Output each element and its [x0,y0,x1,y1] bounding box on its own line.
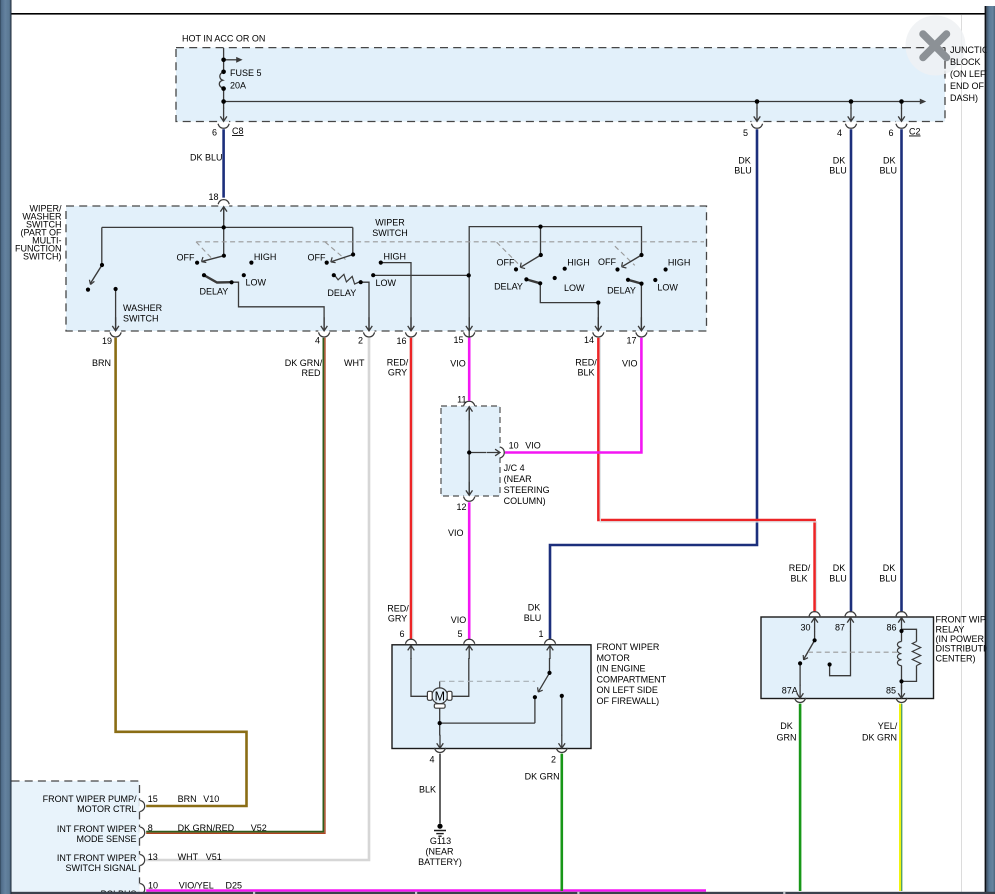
svg-text:V52: V52 [251,823,267,833]
svg-text:11: 11 [457,395,466,405]
svg-text:MODE SENSE: MODE SENSE [76,834,136,844]
svg-text:VIO: VIO [622,359,638,369]
svg-text:OF FIREWALL): OF FIREWALL) [597,696,660,706]
svg-text:10: 10 [509,441,519,451]
svg-text:18: 18 [208,192,218,202]
svg-text:LOW: LOW [564,283,585,293]
svg-text:END OF: END OF [950,81,985,91]
svg-text:13: 13 [148,852,158,862]
svg-text:STEERING: STEERING [504,485,550,495]
svg-text:BLOCK: BLOCK [950,57,981,67]
svg-text:6: 6 [888,128,893,138]
svg-text:5: 5 [743,128,748,138]
svg-text:GRY: GRY [388,368,407,378]
svg-text:86: 86 [886,623,896,633]
svg-text:15: 15 [453,335,463,345]
svg-text:FUSE 5: FUSE 5 [230,68,262,78]
svg-text:85: 85 [886,686,896,696]
svg-text:BLU: BLU [829,166,847,176]
svg-text:DK: DK [528,603,541,613]
svg-text:4: 4 [429,755,434,765]
svg-text:HIGH: HIGH [567,258,590,268]
svg-text:4: 4 [315,336,320,346]
svg-text:WIPER: WIPER [375,218,405,228]
svg-text:30: 30 [800,623,810,633]
svg-text:DELAY: DELAY [199,287,228,297]
svg-text:VIO: VIO [448,528,464,538]
svg-text:GRN: GRN [777,733,797,743]
svg-text:DK GRN: DK GRN [862,733,897,743]
svg-text:J/C 4: J/C 4 [504,463,525,473]
svg-text:15: 15 [148,794,158,804]
svg-text:20A: 20A [230,81,246,91]
svg-text:OFF: OFF [308,252,326,262]
svg-text:(IN POWER: (IN POWER [936,634,985,644]
svg-text:INT FRONT WIPER: INT FRONT WIPER [57,853,137,863]
svg-text:DK: DK [833,156,846,166]
svg-text:16: 16 [396,336,406,346]
svg-text:DK: DK [833,563,846,573]
svg-text:OFF: OFF [497,257,515,267]
svg-text:6: 6 [399,629,404,639]
svg-text:(NEAR: (NEAR [425,847,454,857]
svg-text:MOTOR: MOTOR [597,653,631,663]
svg-text:DK: DK [738,156,751,166]
svg-text:BLU: BLU [524,613,542,623]
svg-text:YEL/: YEL/ [878,721,898,731]
svg-text:RED: RED [301,368,321,378]
svg-text:12: 12 [456,502,466,512]
svg-text:GRY: GRY [388,614,407,624]
svg-text:DK: DK [780,721,793,731]
svg-text:1: 1 [538,629,543,639]
svg-text:COLUMN): COLUMN) [504,496,546,506]
svg-text:BLU: BLU [880,166,898,176]
svg-text:G113: G113 [430,836,451,846]
svg-text:ON LEFT SIDE: ON LEFT SIDE [597,685,658,695]
svg-text:OFF: OFF [177,252,195,262]
svg-text:5: 5 [457,629,462,639]
svg-text:MOTOR CTRL: MOTOR CTRL [77,804,136,814]
svg-text:SWITCH SIGNAL: SWITCH SIGNAL [65,863,136,873]
svg-text:VIO/YEL: VIO/YEL [179,881,214,891]
svg-text:HIGH: HIGH [254,252,277,262]
svg-text:RED/: RED/ [789,563,811,573]
svg-text:INT FRONT WIPER: INT FRONT WIPER [57,824,137,834]
svg-text:DASH): DASH) [950,93,978,103]
svg-text:LOW: LOW [376,278,397,288]
svg-text:OFF: OFF [598,257,616,267]
svg-text:VIO: VIO [525,441,541,451]
svg-text:WHT: WHT [344,358,365,368]
svg-text:RED/: RED/ [387,604,409,614]
svg-text:COMPARTMENT: COMPARTMENT [597,674,667,684]
svg-text:SWITCH: SWITCH [123,314,159,324]
svg-text:FRONT WIPER PUMP/: FRONT WIPER PUMP/ [43,794,137,804]
svg-text:BRN: BRN [92,358,111,368]
svg-text:DELAY: DELAY [494,282,523,292]
svg-text:87A: 87A [782,686,798,696]
svg-text:LOW: LOW [246,277,267,287]
svg-text:BLK: BLK [419,785,436,795]
svg-text:HOT IN ACC OR ON: HOT IN ACC OR ON [182,34,265,44]
svg-text:BLU: BLU [879,574,897,584]
svg-text:DK GRN: DK GRN [525,772,560,782]
svg-text:VIO: VIO [450,359,466,369]
svg-text:VIO: VIO [451,615,467,625]
svg-text:BLU: BLU [734,166,752,176]
svg-text:DELAY: DELAY [327,288,356,298]
svg-text:C8: C8 [232,126,244,136]
svg-text:V51: V51 [206,852,222,862]
svg-text:BLK: BLK [790,574,807,584]
svg-text:6: 6 [212,128,217,138]
svg-text:17: 17 [626,336,636,346]
svg-text:87: 87 [835,623,845,633]
svg-text:CENTER): CENTER) [936,653,976,663]
svg-text:DK GRN/RED: DK GRN/RED [178,823,235,833]
svg-text:D25: D25 [226,881,243,891]
svg-text:WHT: WHT [178,852,199,862]
svg-text:LOW: LOW [657,283,678,293]
svg-text:(NEAR: (NEAR [504,474,533,484]
svg-text:DK GRN/: DK GRN/ [285,358,323,368]
svg-text:BLK: BLK [577,368,594,378]
svg-text:V10: V10 [203,794,219,804]
svg-text:SWITCH: SWITCH [372,228,408,238]
svg-text:19: 19 [102,336,112,346]
svg-text:RED/: RED/ [575,358,597,368]
svg-text:BLU: BLU [829,574,847,584]
svg-text:BATTERY): BATTERY) [418,857,462,867]
svg-text:WASHER: WASHER [123,303,163,313]
svg-text:RED/: RED/ [387,358,409,368]
svg-text:DK: DK [883,563,896,573]
svg-text:HIGH: HIGH [668,258,691,268]
svg-text:DELAY: DELAY [607,286,636,296]
svg-text:14: 14 [584,335,594,345]
svg-text:HIGH: HIGH [384,252,407,262]
svg-text:SWITCH): SWITCH) [23,252,62,262]
svg-text:FRONT WIPER: FRONT WIPER [597,642,660,652]
svg-text:(IN ENGINE: (IN ENGINE [597,664,646,674]
svg-text:2: 2 [551,755,556,765]
svg-text:M: M [435,690,445,704]
svg-text:8: 8 [148,823,153,833]
svg-text:DK: DK [883,156,896,166]
svg-text:2: 2 [358,336,363,346]
svg-text:BRN: BRN [178,794,197,804]
svg-text:10: 10 [148,881,158,891]
svg-text:DK BLU: DK BLU [190,153,223,163]
svg-text:RELAY: RELAY [936,624,965,634]
svg-text:4: 4 [837,128,842,138]
svg-text:C2: C2 [909,127,921,137]
